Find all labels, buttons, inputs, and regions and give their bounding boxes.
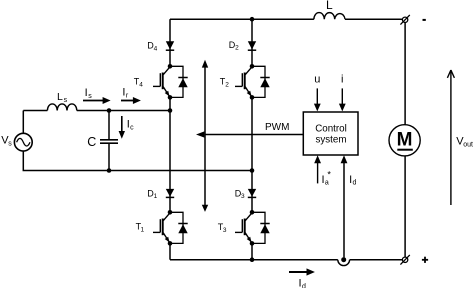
svg-text:a: a [325, 180, 329, 187]
label D2 [229, 40, 239, 52]
transistor T2 (IGBT with antiparallel diode) [235, 64, 270, 100]
svg-text:2: 2 [225, 81, 229, 88]
svg-text:C: C [87, 135, 96, 149]
label plus [422, 257, 428, 263]
svg-text:s: s [8, 141, 12, 148]
svg-text:L: L [326, 0, 333, 12]
right leg wire bottom [251, 243, 253, 259]
wire AC return to right leg [109, 170, 252, 172]
label Id sense [349, 174, 356, 187]
label M [397, 129, 413, 150]
label T3 [218, 222, 227, 234]
label Vout [456, 135, 473, 148]
label Ia* [322, 170, 332, 187]
left leg wire top (rail to T4) [169, 19, 171, 66]
svg-text:*: * [327, 170, 331, 180]
arrow Id bottom [289, 268, 315, 275]
label V_s [1, 135, 12, 148]
svg-text:3: 3 [223, 227, 227, 234]
label Ls [57, 91, 68, 104]
left leg wire bottom [169, 243, 171, 259]
node B : capacitor bottom junction [107, 168, 112, 173]
arrow i into control box [339, 88, 346, 111]
label Id bottom [299, 278, 307, 288]
diode D3 [248, 189, 256, 198]
top rail left segment [170, 18, 252, 20]
transistor T3 (IGBT with antiparallel diode) [235, 210, 270, 246]
capacitor C [100, 111, 118, 171]
right leg wire middle (T2 to T3) [251, 97, 253, 212]
svg-text:d: d [353, 180, 357, 187]
motor M [389, 125, 420, 156]
right leg wire top (rail to T2) [251, 19, 253, 66]
label D4 [147, 41, 157, 53]
label Ic [127, 119, 134, 132]
PWM signal arrow [196, 131, 303, 137]
bottom rail right segment [350, 259, 403, 261]
wire AC top: source to inductor Ls [23, 110, 47, 112]
arrow Ic [119, 116, 125, 139]
svg-text:3: 3 [241, 193, 245, 200]
label C [87, 135, 96, 149]
AC source V_s [14, 133, 32, 151]
svg-text:4: 4 [139, 81, 143, 88]
arrow Vout [447, 70, 454, 205]
svg-text:c: c [130, 124, 134, 131]
node A : capacitor top junction [107, 108, 112, 113]
wire node A to bridge left leg [109, 110, 170, 112]
label T4 [134, 77, 144, 89]
node: Id measuring junction [341, 257, 346, 262]
node: right leg bottom rail junction [250, 257, 255, 262]
node: right leg AC return junction [250, 168, 255, 173]
label D1 [147, 188, 157, 200]
label u [314, 74, 320, 86]
node: top rail right leg junction [250, 17, 255, 22]
diode D2 [248, 41, 256, 50]
svg-text:s: s [88, 93, 92, 100]
diode D4 [166, 41, 174, 50]
label minus [423, 19, 426, 21]
svg-text:d: d [302, 283, 306, 288]
diode D1 [166, 189, 174, 198]
transistor T1 (IGBT with antiparallel diode) [153, 210, 188, 246]
svg-text:Control: Control [315, 123, 347, 134]
svg-text:1: 1 [141, 226, 145, 233]
label Is [85, 87, 93, 100]
svg-text:s: s [64, 97, 68, 104]
wire source bottom [23, 151, 109, 170]
wire motor to terminal bottom [404, 156, 406, 257]
label Control system [315, 123, 347, 145]
svg-text:1: 1 [154, 193, 158, 200]
label PWM [265, 122, 289, 133]
arrow Ir [121, 97, 141, 104]
svg-text:I: I [85, 87, 88, 99]
mid bridge double arrow [202, 60, 208, 212]
svg-text:u: u [314, 74, 320, 86]
svg-text:out: out [463, 141, 473, 148]
label L [326, 0, 333, 12]
label T1 [136, 222, 145, 234]
svg-text:PWM: PWM [265, 122, 289, 133]
arrow u into control box [314, 88, 321, 111]
inductor Ls [47, 104, 76, 111]
terminal bottom (positive output) [400, 255, 409, 265]
top rail right segment [345, 18, 403, 20]
arrow Ia* into control box bottom [314, 155, 321, 183]
transistor T4 (IGBT with antiparallel diode) [153, 64, 188, 100]
inductor L [314, 13, 345, 20]
node: left leg AC input junction [168, 108, 173, 113]
terminal top (negative output) [400, 15, 409, 25]
control system box U1 [303, 112, 358, 155]
svg-text:4: 4 [154, 45, 158, 52]
label D3 [235, 188, 245, 200]
svg-text:M: M [397, 129, 413, 150]
top rail middle segment [252, 18, 314, 20]
arrow Is [83, 97, 111, 104]
left leg wire middle (T4 to T1, crosses AC return) [169, 97, 171, 212]
current sensor hop at Id measuring point [338, 260, 350, 266]
label Ir [122, 87, 128, 100]
label i [341, 74, 343, 86]
svg-text:system: system [315, 134, 346, 145]
wire terminal top to motor [404, 23, 406, 125]
wire AC top: inductor to node A [77, 110, 109, 112]
bottom rail left segment [170, 259, 338, 261]
svg-text:2: 2 [235, 45, 239, 52]
svg-text:i: i [341, 74, 343, 86]
label T2 [220, 77, 230, 89]
wire source top to AC top rail [22, 111, 24, 134]
wire and arrow Id sense line from measuring junction to control box [341, 155, 348, 257]
motor underline [397, 149, 413, 151]
svg-text:L: L [57, 91, 63, 103]
